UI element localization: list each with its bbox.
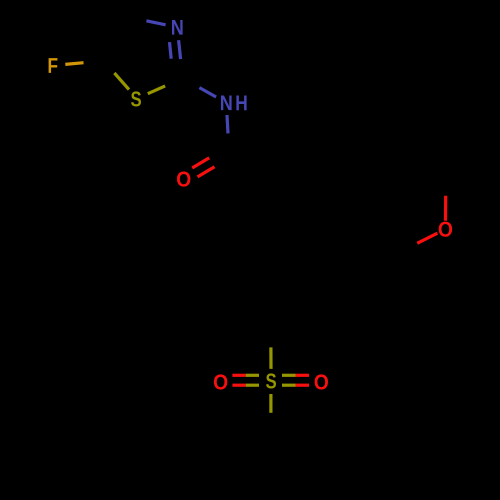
atom label O (methoxy O) (439, 222, 452, 237)
atom label N (amide NH) (221, 95, 232, 110)
bond S1-C5 (carbon half) (102, 61, 115, 73)
bond C4=C5 main line (black) (102, 17, 127, 61)
bond C2-NH (nitrogen half) (carbon half) (199, 88, 216, 97)
bond NH-C7 (nitrogen half) (227, 115, 228, 134)
double bond S2=O(right) line, sulfur half (282, 374, 296, 377)
double bond C7=O8 carbonyl (198, 167, 215, 177)
double bond C7=O8 carbonyl (192, 158, 209, 168)
atom label O (sulfonyl O right) (315, 374, 328, 389)
bond C7-C9 (black) (229, 128, 277, 152)
bond S2-CH2 (sulfur half) (carbon half) (269, 413, 272, 432)
bond O-CH3 methoxy (oxygen half) (carbon half) (444, 170, 447, 195)
bond C2-NH (nitrogen half) (183, 78, 200, 88)
atom label O (sulfonyl O left) (214, 374, 227, 389)
bond O-C(ring) methoxy (oxygen half) (carbon half) (397, 243, 417, 253)
bond S1-C2 (sulfur half) (148, 86, 165, 94)
atom label S (sulfonyl S) (266, 373, 276, 388)
atom label H (amide NH) (236, 96, 246, 111)
double bond N3=C2 inner line (C half) (171, 59, 173, 76)
bond S1-C5 (sulfur half) (114, 73, 129, 90)
bond S2-C(ring) (sulfur half) (269, 347, 272, 369)
double bond S2=O(left) line, oxygen half (232, 374, 245, 377)
bond F-C5 (fluorine half) (carbon half) (84, 61, 102, 63)
bond O-C(ring) methoxy (oxygen half) (417, 233, 437, 243)
double bond C7=O8 carbonyl (far half) (215, 157, 232, 167)
double bond S2=O(left) line, oxygen half (232, 384, 245, 387)
double bond S2=O(right) line, oxygen half (296, 384, 310, 387)
double bond N3=C2 inner line (N half) (170, 42, 172, 59)
atom label S (thiazole S1) (131, 91, 141, 106)
bond S2-CH2 (sulfur half) (269, 394, 272, 413)
double bond C7=O8 carbonyl (far half) (209, 148, 226, 158)
bond F-C5 (fluorine half) (65, 63, 83, 65)
atom label O (carbonyl O) (177, 172, 190, 187)
bond C4-N3 (nitrogen half) (127, 17, 146, 21)
double bond N3=C2 main line (179, 40, 181, 59)
bond NH-C7 (nitrogen half) (carbon half) (228, 134, 229, 153)
bond S2-C(ring) (sulfur half) (carbon half) (269, 326, 272, 348)
bond C4=C5 inner line (black) (94, 12, 120, 56)
double bond S2=O(right) line, sulfur half (282, 384, 296, 387)
bond S1-C2 (sulfur half) (carbon half) (165, 78, 182, 86)
double bond N3=C2 main line (carbon half) (181, 59, 183, 78)
atom label N (thiazole N3) (172, 20, 183, 35)
double bond S2=O(right) line, oxygen half (296, 374, 310, 377)
atom label F (fluorine) (49, 58, 58, 73)
bond C4-N3 (nitrogen half) (carbon half) (146, 21, 165, 25)
double bond S2=O(left) line, sulfur half (246, 374, 259, 377)
bond O-CH3 methoxy (oxygen half) (444, 196, 447, 221)
double bond S2=O(left) line, sulfur half (246, 384, 259, 387)
